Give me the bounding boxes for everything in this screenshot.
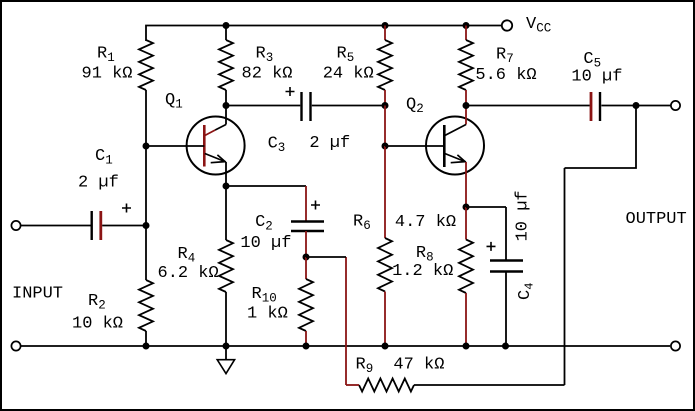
resistor R1 [139, 40, 153, 90]
wire C2 bottom lead [305, 231, 307, 257]
wire R10 to ground rail [305, 331, 307, 346]
svg-text:R2: R2 [88, 292, 106, 313]
transistor Q1 body [187, 117, 245, 175]
wire C1 node to R2 [145, 226, 147, 281]
wire R10 top lead [305, 257, 307, 279]
wire emitter node to R4 [225, 186, 227, 240]
svg-text:R6: R6 [353, 213, 371, 234]
svg-text:R3: R3 [256, 45, 274, 66]
resistor R9 [359, 379, 414, 392]
svg-text:C3: C3 [268, 135, 286, 156]
wire feedback left vertical [345, 257, 347, 385]
svg-text:47 kΩ: 47 kΩ [393, 355, 444, 374]
resistor R8 [459, 240, 473, 294]
node R3 top [223, 22, 230, 29]
capacitor C2 [291, 220, 324, 222]
svg-text:5.6 kΩ: 5.6 kΩ [475, 66, 536, 85]
transistor Q2 emitter stroke [445, 154, 466, 163]
node R7 top [463, 22, 470, 29]
svg-text:10 µf: 10 µf [514, 190, 533, 241]
node R4 ground [223, 343, 230, 350]
resistor R3 [219, 40, 233, 90]
resistor R4 [219, 240, 233, 292]
svg-text:82 kΩ: 82 kΩ [242, 65, 293, 84]
resistor R2 [139, 280, 153, 331]
wire Q1 collector lead [225, 106, 227, 125]
wire R9 left lead [346, 384, 359, 386]
terminal output-ground (bottom right) [671, 341, 680, 350]
svg-text:R10: R10 [252, 285, 277, 306]
wire R8 top lead [465, 207, 467, 240]
transistor Q1 emitter stroke [205, 154, 226, 163]
wire ground bottom rail [21, 345, 670, 347]
svg-text:24 kΩ: 24 kΩ [323, 65, 374, 84]
wire ground stub [225, 346, 227, 360]
node C4 ground [502, 343, 509, 350]
wire feedback to C2 node [306, 256, 346, 258]
terminal output [671, 101, 680, 110]
node base Q1 [143, 143, 150, 150]
resistor R7 [459, 40, 473, 90]
wire collector node to C3 [226, 105, 300, 107]
svg-text:1.2 kΩ: 1.2 kΩ [392, 262, 453, 281]
node R2 ground [143, 343, 150, 350]
wire R5 bottom lead [384, 90, 386, 106]
transistor Q1 base bar [203, 125, 206, 167]
transistor Q2 emitter arrow [451, 155, 465, 163]
svg-text:R1: R1 [97, 45, 115, 66]
svg-text:R4: R4 [178, 245, 196, 266]
svg-text:1 kΩ: 1 kΩ [247, 305, 288, 324]
svg-text:VCC: VCC [526, 15, 551, 36]
wire R4 to ground rail [225, 292, 227, 346]
wire R5 node to base node [384, 106, 386, 147]
wire Q2 collector lead [465, 106, 467, 125]
svg-text:C1: C1 [95, 147, 113, 168]
wire R1 to base node [145, 90, 147, 146]
wire C5 to output node [601, 105, 636, 107]
wire emitter node to C2 [226, 185, 306, 187]
node Q1 collector [223, 102, 230, 109]
node Q2 emitter [463, 204, 470, 211]
transistor Q1 emitter arrow [211, 155, 225, 163]
svg-text:10 µf: 10 µf [571, 68, 622, 87]
wire C4 to ground rail [505, 272, 507, 347]
svg-text:10 µf: 10 µf [240, 234, 291, 253]
node base Q2 [382, 143, 389, 150]
wire R3 top lead [225, 26, 227, 41]
svg-text:Q2: Q2 [406, 96, 424, 117]
svg-text:6.2 kΩ: 6.2 kΩ [158, 264, 219, 283]
wire base node to R6 [384, 146, 386, 238]
node R6 ground [382, 343, 389, 350]
svg-text:2 µf: 2 µf [78, 174, 119, 193]
ground [217, 360, 234, 374]
terminal input-ground (bottom left) [11, 341, 20, 350]
node R8 ground [463, 343, 470, 350]
transistor Q2 body [426, 117, 484, 175]
node C1 junction [143, 222, 150, 229]
wire Q2 emitter lead [465, 162, 467, 207]
wire C4 top lead [505, 207, 507, 260]
svg-text:OUTPUT: OUTPUT [626, 210, 687, 229]
wire R7 top lead [465, 26, 467, 41]
capacitor C3 [300, 92, 302, 121]
node R5 top [382, 22, 389, 29]
svg-text:10 kΩ: 10 kΩ [72, 315, 123, 334]
wire C3 to node R5 [312, 105, 385, 107]
wire collector node to C5 [466, 105, 590, 107]
svg-text:C2: C2 [255, 213, 273, 234]
wire C1 to node B1 [102, 225, 146, 227]
wire VCC top rail [146, 26, 501, 42]
transistor Q1 collector stroke [215, 125, 226, 131]
wire feedback from output node [565, 106, 637, 169]
capacitor C1 [90, 211, 92, 240]
wire R2 to ground rail [145, 331, 147, 346]
resistor R10 [299, 279, 313, 331]
wire R8 to ground rail [465, 293, 467, 346]
wire base node to C1 node [145, 146, 147, 226]
transistor Q2 collector stroke [445, 125, 466, 136]
svg-text:R7: R7 [496, 45, 514, 66]
terminal VCC [502, 20, 512, 30]
node Q1 emitter [223, 183, 230, 190]
svg-text:4.7 kΩ: 4.7 kΩ [395, 213, 456, 232]
resistor R6 [378, 238, 392, 292]
transistor Q2 base bar [443, 125, 446, 167]
wire R9 right lead [414, 384, 565, 386]
terminal input [11, 221, 20, 230]
node R10 ground [303, 343, 310, 350]
node C3-R5 junction [382, 102, 389, 109]
svg-text:R5: R5 [337, 45, 355, 66]
capacitor C5 [590, 92, 593, 121]
wire feedback right vertical [564, 168, 566, 385]
wire R3 to collector node [225, 90, 227, 106]
wire R6 to ground rail [384, 292, 386, 347]
wire input to C1 [21, 225, 91, 227]
wire R7 bottom lead [465, 90, 467, 106]
svg-text:2 µf: 2 µf [309, 134, 350, 153]
wire Q1 base [146, 145, 204, 147]
wire Q2 base [385, 145, 444, 147]
wire output node to terminal [636, 105, 671, 107]
svg-text:INPUT: INPUT [12, 285, 63, 304]
node Q2 collector [463, 102, 470, 109]
node C2-R10 junction [303, 254, 310, 261]
wire Q1 emitter lead [225, 162, 227, 186]
wire C2 top lead [305, 186, 307, 222]
node output junction [633, 102, 640, 109]
svg-text:R9: R9 [356, 355, 374, 376]
wire R5 top lead [384, 26, 386, 41]
svg-text:91 kΩ: 91 kΩ [82, 65, 133, 84]
svg-text:C4: C4 [516, 283, 537, 300]
wire emitter node to C4 [466, 206, 506, 208]
capacitor C4 [490, 259, 523, 261]
svg-text:Q1: Q1 [165, 91, 183, 112]
resistor R5 [378, 40, 392, 90]
